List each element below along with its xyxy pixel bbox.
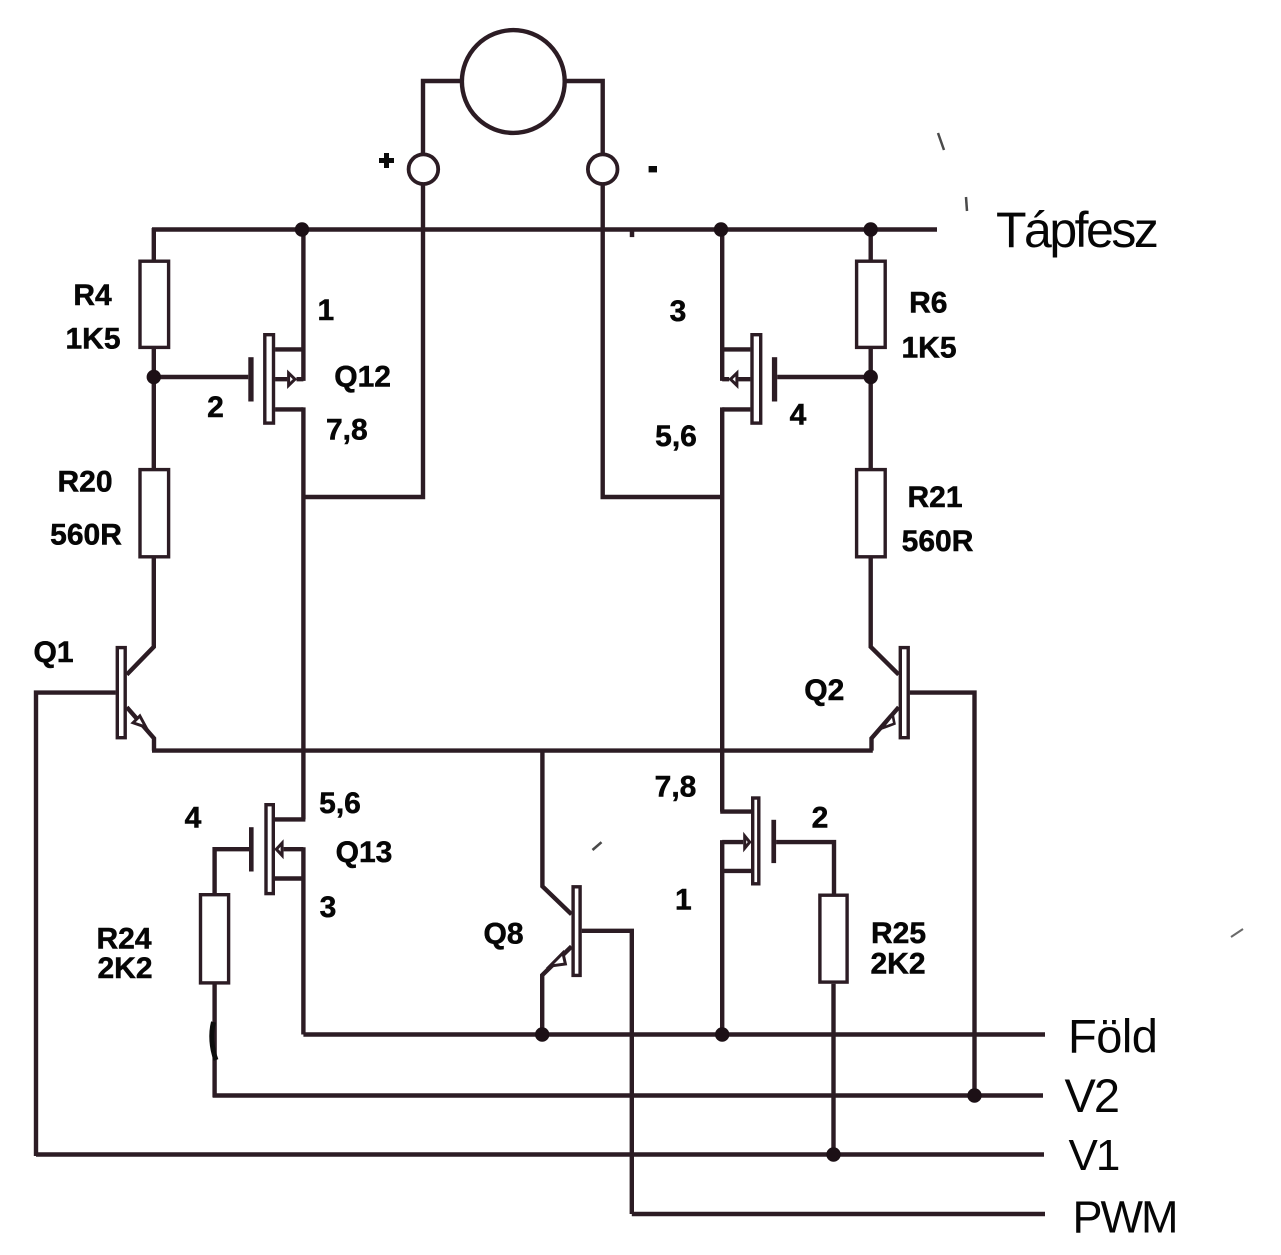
svg-text:V1: V1: [1069, 1131, 1119, 1180]
wire R24 to V2: [212, 985, 216, 1098]
transistor Q2 emitter arrow: [882, 715, 895, 729]
label +: [379, 153, 394, 168]
mosfet Q13b gate bar: [771, 820, 776, 863]
mosfet Q13 gate bar: [249, 827, 254, 871]
stray mark right middle: [1231, 929, 1243, 937]
svg-text:V2: V2: [1065, 1069, 1119, 1122]
resistor R24 body: [201, 895, 229, 983]
wire Q13 gate to R24: [215, 849, 249, 893]
wire rail to R6: [869, 228, 873, 260]
svg-text:5,6: 5,6: [319, 787, 361, 820]
wire V2 rail: [213, 1093, 1043, 1097]
wire Q12 drain/body vertical: [301, 228, 305, 381]
svg-text:3: 3: [670, 295, 687, 328]
svg-text:3: 3: [320, 891, 337, 924]
wire Q13 body stub: [284, 847, 304, 851]
svg-text:Q8: Q8: [483, 918, 523, 951]
svg-text:2K2: 2K2: [870, 948, 925, 981]
stray mark top right: [938, 133, 944, 150]
mosfet Q13b channel bar: [753, 798, 759, 884]
wire Q12 drain stub: [275, 347, 305, 351]
wire PWM rail: [632, 1212, 1045, 1216]
label -: [649, 166, 657, 172]
mosfet Q12 gate bar: [248, 357, 253, 401]
wire R20 to Q1 collector: [127, 558, 154, 674]
glitch stroke on R24 wire: [212, 1022, 216, 1060]
wire emitter rail: [152, 748, 873, 752]
svg-text:2: 2: [207, 391, 224, 424]
svg-text:1K5: 1K5: [65, 323, 120, 356]
wire Q1 base to V1: [36, 693, 116, 1156]
svg-text:1K5: 1K5: [901, 332, 956, 365]
mosfet Q13b body arrow: [745, 836, 750, 848]
transistor Q8 emitter arrow: [550, 953, 566, 966]
svg-text:1: 1: [318, 294, 335, 327]
resistor R25 body: [820, 895, 847, 982]
svg-text:Q2: Q2: [804, 674, 844, 707]
transistor Q1 base bar: [117, 648, 125, 738]
node dot rail/Q12b drain: [714, 222, 728, 236]
terminal + circle: [409, 154, 439, 184]
wire R21 to Q2 collector: [871, 558, 899, 674]
wire Q13b body/source vertical to Fold: [720, 840, 724, 1034]
wire Q8 collector: [542, 751, 571, 915]
wire Q13b drain stub: [720, 809, 751, 813]
node dot Fold/Q13b source: [715, 1027, 729, 1041]
wire Q13 body/source vertical to Fold: [301, 847, 305, 1034]
wire Q8 emitter to Fold: [542, 947, 571, 1035]
stray tick below rail: [630, 231, 635, 238]
wire Q13 drain stub: [275, 817, 306, 821]
transistor Q8 base bar: [573, 887, 580, 976]
wire Q12b source vertical to lower mosfet drain (right bridge output): [720, 407, 724, 811]
wire Q12 body stub: [275, 377, 303, 381]
svg-text:2K2: 2K2: [97, 952, 152, 985]
mosfet Q12b channel bar: [752, 335, 761, 423]
svg-text:Tápfesz: Tápfesz: [996, 202, 1157, 258]
wire Q12b source stub: [722, 407, 750, 411]
wire R6 to gate junction: [869, 349, 873, 377]
wire Q2 base to V2: [910, 693, 975, 1097]
svg-text:R24: R24: [96, 923, 151, 956]
wire V1 rail: [36, 1152, 1044, 1156]
node dot rail/Q12 drain: [295, 222, 309, 236]
wire Q12 source vertical to Q13 drain (left bridge output): [301, 407, 305, 819]
svg-text:Q1: Q1: [33, 636, 73, 669]
resistor R4 body: [140, 261, 169, 347]
wire motor + lead (left): [303, 81, 460, 497]
wire motor - lead (right): [567, 81, 723, 497]
wire Tapfesz rail: [152, 227, 937, 231]
resistor R6 body: [857, 261, 886, 347]
mosfet Q12 channel bar: [265, 335, 274, 423]
svg-text:R20: R20: [57, 466, 112, 499]
wire Q12b gate: [777, 375, 871, 379]
stray mark center: [593, 842, 602, 850]
wire Q8 base to PWM: [582, 931, 632, 1214]
node dot rail/R6: [864, 222, 878, 236]
node dot Fold/Q8 emitter: [535, 1027, 549, 1041]
svg-text:R21: R21: [907, 481, 962, 514]
svg-text:R6: R6: [909, 287, 947, 320]
wire Q12b body stub: [722, 377, 750, 381]
wire Q13b gate to R25: [776, 842, 834, 894]
wire Q12b drain/body vertical: [720, 228, 724, 381]
svg-text:1: 1: [675, 884, 692, 917]
svg-text:2: 2: [812, 802, 829, 835]
resistor R21 body: [857, 470, 886, 557]
node dot V2/Q2 base: [967, 1088, 981, 1102]
transistor Q1 emitter arrow: [133, 716, 146, 727]
wire junction to R21: [869, 377, 873, 468]
svg-text:R25: R25: [871, 917, 926, 950]
wire Q12b drain stub: [720, 347, 750, 351]
mosfet Q13 body arrow: [276, 843, 282, 855]
wire Q13b source stub: [722, 869, 751, 873]
svg-text:7,8: 7,8: [326, 414, 368, 447]
mosfet Q12b body arrow: [731, 373, 737, 385]
transistor Q2 base bar: [900, 648, 908, 738]
node dot R4/R20/Q12 gate: [147, 370, 161, 384]
mosfet Q12b gate bar: [772, 357, 777, 401]
svg-text:5,6: 5,6: [655, 420, 697, 453]
svg-text:PWM: PWM: [1073, 1192, 1177, 1243]
motor M1: [462, 30, 565, 133]
wire junction to R20: [152, 377, 156, 468]
svg-text:Q12: Q12: [334, 361, 391, 394]
svg-text:560R: 560R: [50, 519, 122, 552]
svg-text:4: 4: [790, 399, 807, 432]
wire rail to R4: [152, 228, 156, 260]
wire Fold rail: [303, 1032, 1045, 1036]
wire R25 to V1: [831, 984, 835, 1156]
terminal - circle: [588, 154, 618, 184]
wire Q2 emitter: [872, 707, 899, 750]
svg-text:7,8: 7,8: [655, 771, 697, 804]
mosfet Q12 body arrow: [289, 373, 295, 385]
wire R4 to gate junction: [152, 349, 156, 377]
node dot V1/R25: [826, 1147, 840, 1161]
wire Q1 emitter: [127, 707, 154, 750]
svg-text:Föld: Föld: [1068, 1010, 1157, 1063]
svg-text:R4: R4: [73, 279, 112, 312]
wire Q12 gate: [154, 375, 249, 379]
node dot R6/R21/Q12b gate: [864, 370, 878, 384]
resistor R20 body: [140, 470, 169, 557]
svg-text:4: 4: [185, 802, 202, 835]
wire Q12 source stub: [275, 407, 303, 411]
stray mark near rail end: [966, 197, 967, 211]
wire Q13b body stub: [722, 840, 743, 844]
wire Q13 source stub: [275, 876, 304, 880]
mosfet Q13 channel bar: [266, 805, 273, 894]
svg-text:560R: 560R: [902, 525, 974, 558]
svg-text:Q13: Q13: [336, 836, 393, 869]
